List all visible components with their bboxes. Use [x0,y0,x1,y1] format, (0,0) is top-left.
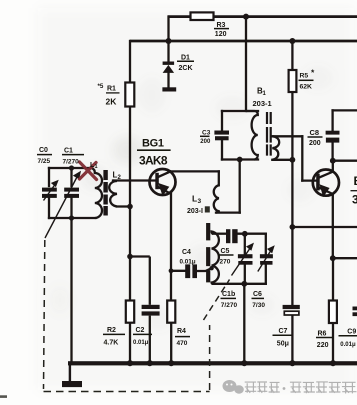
svg-text:C8: C8 [310,128,320,137]
svg-text:203-I: 203-I [187,208,203,215]
svg-text:C4: C4 [182,249,191,256]
svg-text:2CK: 2CK [179,65,193,72]
svg-text:C1: C1 [64,147,73,154]
svg-text:R1: R1 [107,86,116,93]
svg-text:7/270: 7/270 [221,302,238,309]
svg-text:C9: C9 [347,329,356,336]
svg-text:220: 220 [317,342,329,349]
svg-text:470: 470 [177,340,188,347]
svg-text:R2: R2 [107,327,116,334]
svg-text:BG1: BG1 [142,138,164,150]
svg-text:*5: *5 [98,83,104,90]
svg-text:C7: C7 [279,328,288,335]
svg-text:200: 200 [309,140,321,147]
svg-text:0.01μ: 0.01μ [180,259,196,266]
svg-text:7/270: 7/270 [63,159,80,166]
svg-text:B: B [354,174,357,188]
svg-text:C6: C6 [253,291,262,298]
svg-text:50μ: 50μ [277,341,289,348]
svg-text:203-1: 203-1 [253,99,272,108]
svg-text:62K: 62K [300,83,313,90]
svg-text:7/25: 7/25 [38,158,51,165]
svg-text:R5: R5 [300,72,309,79]
svg-text:R4: R4 [177,328,186,335]
svg-text:C2: C2 [136,327,145,334]
svg-text:4.7K: 4.7K [104,340,119,347]
svg-text:270: 270 [220,259,231,266]
svg-text:3: 3 [198,198,202,205]
svg-text:0.01μ: 0.01μ [340,342,356,348]
svg-text:200: 200 [200,139,211,145]
svg-text:C0: C0 [39,147,48,154]
svg-text:120: 120 [215,31,227,38]
svg-text:C1b: C1b [222,291,235,298]
svg-text:D1: D1 [181,54,190,61]
svg-text:0.01μ: 0.01μ [133,340,149,346]
svg-text:C5: C5 [221,248,230,255]
svg-text:2K: 2K [106,96,118,106]
svg-text:7/30: 7/30 [252,302,265,309]
svg-text:1: 1 [95,164,98,170]
svg-text:3: 3 [352,193,357,207]
svg-text:3AK8: 3AK8 [139,153,168,167]
svg-text:R6: R6 [318,331,327,338]
svg-text:L: L [192,194,197,204]
